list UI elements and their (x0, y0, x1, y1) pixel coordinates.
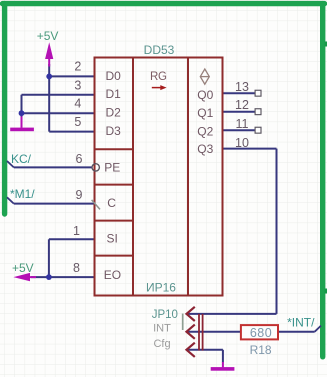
wire pin9 (*M1/) (14, 203, 95, 205)
IC divider vertical right (187, 58, 189, 296)
wire pin2 (+5V to D0) (49, 75, 94, 77)
svg-text:D3: D3 (106, 124, 122, 138)
unconnected square pin12 (255, 109, 261, 115)
bus entry *INT/ (315, 326, 321, 332)
svg-text:10: 10 (235, 136, 249, 150)
svg-text:12: 12 (235, 98, 249, 112)
svg-text:*M1/: *M1/ (10, 187, 35, 201)
power flag +5V top arrow (45, 42, 53, 59)
jumper chevron pin3 (187, 343, 195, 357)
IC divider SI/EO (95, 255, 134, 257)
svg-text:ИР16: ИР16 (146, 281, 176, 295)
wire pin6 (KC/) (14, 166, 92, 168)
wire pin5 (49, 131, 94, 133)
svg-text:11: 11 (236, 117, 249, 131)
jumper chevron pin1 (187, 307, 195, 321)
svg-text:8: 8 (73, 261, 80, 275)
svg-text:C: C (107, 196, 116, 210)
svg-text:PE: PE (104, 160, 120, 174)
svg-text:SI: SI (107, 232, 118, 246)
IC divider C/SI (95, 220, 134, 222)
svg-text:4: 4 (74, 97, 81, 111)
wire pin10 (223, 148, 277, 150)
bus segment left (2, 4, 7, 214)
IC divider PE/C (95, 184, 134, 186)
wire jumper pin3 row (187, 349, 223, 351)
svg-text:Q0: Q0 (197, 88, 213, 102)
svg-text:Q1: Q1 (197, 106, 213, 120)
svg-text:Cfg: Cfg (153, 338, 170, 350)
power flag +5V left arrow (13, 273, 30, 281)
svg-text:3: 3 (74, 78, 81, 92)
svg-text:R18: R18 (250, 343, 272, 357)
wire pin1 (49, 238, 95, 240)
junction node pin4/gnd (19, 110, 25, 116)
svg-text:9: 9 (76, 188, 83, 202)
wire jumper pin2 to resistor (187, 331, 241, 333)
wire pin13 (223, 92, 255, 94)
bus stub right upper (325, 42, 327, 47)
three-state diamond symbol (200, 69, 209, 84)
bus stub right lower (325, 289, 327, 294)
svg-text:KC/: KC/ (11, 152, 32, 166)
jumper pin1 tick (182, 314, 184, 331)
svg-text:D0: D0 (106, 69, 122, 83)
svg-text:1: 1 (73, 224, 80, 238)
svg-text:D1: D1 (106, 87, 122, 101)
wire pin4 (22, 112, 95, 114)
wire +5V vertical (48, 64, 50, 132)
wire resistor to bus entry (278, 331, 315, 333)
wire pin11 (223, 129, 255, 131)
svg-text:INT: INT (153, 323, 171, 335)
svg-text:Q2: Q2 (197, 125, 213, 139)
IC DD53 outline (95, 58, 223, 296)
svg-text:EO: EO (104, 268, 121, 282)
resistor R18 body (241, 325, 278, 339)
pin9 dynamic input slash (92, 200, 100, 210)
ground GND1 (21, 117, 23, 128)
junction node pin2/+5V (46, 74, 52, 80)
svg-text:+5V: +5V (12, 261, 34, 275)
svg-text:RG: RG (150, 71, 167, 83)
bus entry *M1/ (7, 197, 14, 203)
bus segment top (3, 1, 325, 6)
svg-text:JP10: JP10 (152, 309, 178, 321)
wire gnd1 vertical (21, 95, 23, 118)
svg-text:6: 6 (76, 152, 83, 166)
svg-text:DD53: DD53 (144, 43, 175, 57)
unconnected square pin11 (255, 127, 261, 133)
wire jumper pin3 vertical (222, 350, 224, 363)
wire pin10 vertical (276, 149, 278, 314)
bus entry KC/ (7, 161, 14, 167)
svg-text:+5V: +5V (37, 29, 59, 43)
pin6 inversion circle (92, 164, 99, 171)
wire pin8 (+5V) (31, 276, 95, 278)
wire pin3 (22, 94, 95, 96)
svg-text:5: 5 (74, 115, 81, 129)
jumper bar a (198, 314, 200, 351)
junction node pin8 (46, 274, 52, 280)
IC divider vertical left (132, 58, 134, 296)
IC divider D/PE (95, 148, 134, 150)
wire pin12 (223, 111, 255, 113)
svg-text:*INT/: *INT/ (287, 315, 315, 329)
wire jumper pin1 row (187, 313, 277, 315)
wire pin1 to pin8 vertical (48, 239, 50, 277)
bus segment right (320, 4, 325, 357)
jumper bar b (202, 314, 204, 351)
unconnected square pin13 (255, 90, 261, 96)
svg-text:2: 2 (74, 59, 81, 73)
svg-text:13: 13 (235, 80, 249, 94)
svg-text:680: 680 (250, 326, 272, 340)
RG clock arrow (152, 87, 162, 89)
svg-text:D2: D2 (106, 106, 122, 120)
ground GND2 (222, 362, 224, 367)
jumper chevron pin2 (187, 325, 195, 339)
svg-text:Q3: Q3 (197, 142, 213, 156)
